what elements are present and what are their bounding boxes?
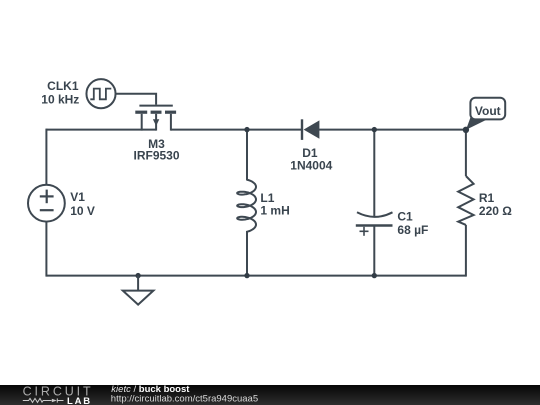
svg-text:LAB: LAB <box>67 396 92 405</box>
wire gate from CLK1 <box>116 94 157 105</box>
wire C1 bottom <box>373 227 375 276</box>
transistor M3 (PMOS) <box>135 106 176 131</box>
svg-text:10 kHz: 10 kHz <box>41 93 79 107</box>
svg-text:10 V: 10 V <box>70 204 95 218</box>
inductor L1 <box>237 180 256 232</box>
wire C1 top <box>373 130 375 217</box>
voltage source V1 <box>28 185 65 222</box>
wire diode to Vout node <box>319 129 466 131</box>
junction ground <box>135 273 140 278</box>
ground <box>123 276 154 305</box>
svg-text:1 mH: 1 mH <box>260 204 289 218</box>
junction L1 top <box>244 127 249 132</box>
svg-text:220 Ω: 220 Ω <box>479 204 512 218</box>
svg-text:R1: R1 <box>479 191 495 205</box>
junction C1 top <box>372 127 377 132</box>
wire R1 top <box>465 130 467 176</box>
wire V1 top <box>45 129 47 185</box>
svg-text:C1: C1 <box>397 209 413 223</box>
svg-text:CLK1: CLK1 <box>47 79 79 93</box>
wire bottom rail <box>46 275 466 277</box>
svg-text:Vout: Vout <box>475 104 501 118</box>
wire V1 bottom <box>45 222 47 277</box>
svg-text:V1: V1 <box>70 190 85 204</box>
wire source rail top-left <box>46 129 156 131</box>
resistor R1 <box>458 176 473 225</box>
node dot Vout <box>463 127 469 133</box>
logo waveform <box>23 398 64 402</box>
wire drain rail <box>171 129 302 131</box>
footer bar <box>0 385 540 405</box>
diode D1 <box>302 119 319 140</box>
capacitor C1 <box>356 212 393 236</box>
node Vout flag <box>466 98 505 130</box>
wire L1 bottom <box>246 231 248 276</box>
wire L1 top <box>246 130 248 181</box>
junction L1 bottom <box>244 273 249 278</box>
svg-text:68 µF: 68 µF <box>397 223 428 237</box>
wire R1 bottom <box>465 225 467 277</box>
svg-text:1N4004: 1N4004 <box>290 159 332 173</box>
svg-text:IRF9530: IRF9530 <box>133 149 179 163</box>
clock source CLK1 <box>86 79 115 108</box>
svg-text:http://circuitlab.com/ct5ra949: http://circuitlab.com/ct5ra949cuaa5 <box>111 394 258 405</box>
junction C1 bottom <box>372 273 377 278</box>
